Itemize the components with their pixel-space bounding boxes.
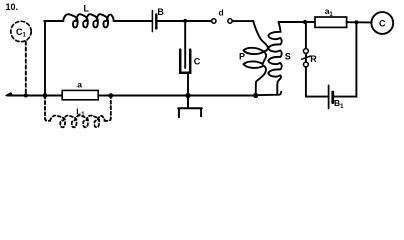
dashed lead from C1 to bottom wire xyxy=(25,42,27,95)
node: junction right of box a xyxy=(108,93,113,98)
svg-text:S: S xyxy=(285,52,291,62)
svg-text:C1: C1 xyxy=(16,27,27,39)
phone C (circle) xyxy=(371,12,393,34)
wire: bottom left with arrow end xyxy=(7,95,62,97)
sliding contact slash xyxy=(302,56,311,59)
svg-text:C: C xyxy=(194,56,201,66)
generator C1 (dashed circle) xyxy=(11,21,31,41)
wire: bottom stub under transformer xyxy=(256,92,282,96)
node: junction left vertical / bottom wire xyxy=(43,93,48,98)
wire: coil L to capacitor B xyxy=(114,20,152,22)
svg-text:B1: B1 xyxy=(334,98,344,110)
svg-text:B: B xyxy=(157,7,164,17)
transformer secondary S xyxy=(268,22,281,95)
node: junction battery branch xyxy=(354,20,358,24)
svg-text:10.: 10. xyxy=(6,2,19,12)
node: junction condenser/ground on bottom wire xyxy=(185,93,190,98)
svg-text:L1: L1 xyxy=(76,107,85,118)
svg-text:d: d xyxy=(219,8,224,18)
transformer primary P xyxy=(244,21,268,95)
arrowhead at left end of bottom wire xyxy=(6,93,13,96)
wire: capacitor B to switch xyxy=(158,20,212,22)
wire between terminals xyxy=(305,53,307,62)
resistor a (box) xyxy=(62,90,98,99)
node: junction R branch xyxy=(303,20,307,24)
svg-text:C: C xyxy=(379,19,386,29)
svg-text:P: P xyxy=(239,52,245,62)
variable contact R branch xyxy=(305,22,307,49)
terminal circle bottom xyxy=(304,62,309,67)
wire: top left horizontal to coil L xyxy=(44,20,63,22)
node: junction dot C1 lead / bottom wire xyxy=(24,94,28,98)
ground xyxy=(178,96,202,118)
wire: condenser C to bottom wire xyxy=(187,74,189,96)
wire: switch to transformer primary xyxy=(232,20,253,22)
wire: battery up to top junction xyxy=(334,22,357,96)
wire: R down and right to battery xyxy=(306,67,328,97)
inductor L1 (dashed alternative) xyxy=(45,96,50,121)
wire: down from junction to condenser C xyxy=(184,21,186,68)
svg-text:R: R xyxy=(310,54,317,64)
node: junction above crystal C xyxy=(183,19,187,23)
wire: top right horizontal (secondary to box a1) xyxy=(279,21,316,23)
terminal circle top xyxy=(304,49,309,54)
svg-text:L: L xyxy=(84,4,90,14)
inductor L xyxy=(63,14,114,27)
battery B1 xyxy=(328,85,330,108)
resistor a1 (box) xyxy=(315,17,347,27)
svg-text:a: a xyxy=(77,79,82,89)
switch d (open, two terminals) xyxy=(212,19,216,23)
capacitor B xyxy=(151,11,153,32)
wire: bottom middle horizontal xyxy=(98,95,255,97)
wire: box a1 to phone C xyxy=(347,21,372,23)
node: junction primary / bottom wire xyxy=(253,93,258,98)
wire: left vertical xyxy=(44,21,46,96)
condenser C (U plate + inner plate) xyxy=(180,50,190,73)
